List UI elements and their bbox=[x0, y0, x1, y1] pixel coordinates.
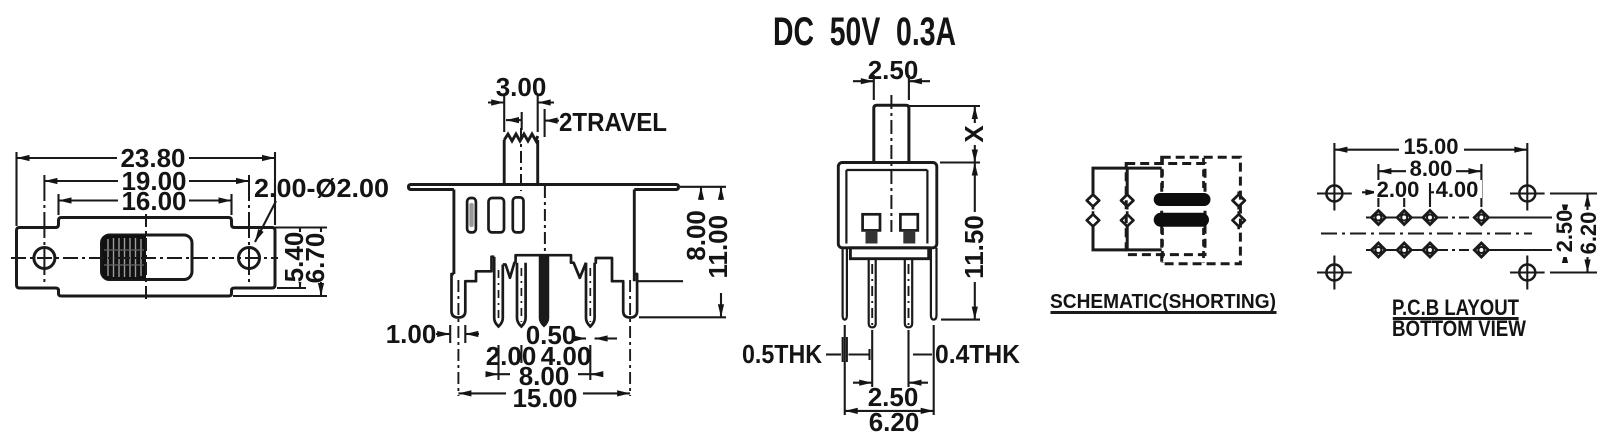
svg-text:0.4THK: 0.4THK bbox=[935, 339, 1020, 369]
dim 8.00 (bottom) bbox=[486, 373, 602, 375]
dim 23.80 bbox=[17, 152, 276, 226]
dim 15.00 (pcb) bbox=[1334, 143, 1527, 177]
shorting bar 1 (filled) bbox=[1154, 193, 1211, 206]
hole centerline right / 19.00 ext bbox=[248, 175, 250, 284]
pin centerline dashes bbox=[845, 264, 934, 415]
dim 2.50 (bottom) bbox=[853, 382, 928, 384]
side pin right bbox=[905, 259, 912, 328]
side pin left bbox=[869, 259, 876, 328]
dim 11.00 bbox=[720, 187, 722, 317]
pin 3 (filled) bbox=[540, 255, 549, 326]
side shaft centerline bbox=[890, 95, 892, 232]
svg-text:3.00: 3.00 bbox=[496, 72, 547, 102]
mounting plate bbox=[409, 185, 679, 190]
dim 6.20 bbox=[845, 410, 934, 412]
dim 3.00 bbox=[488, 96, 554, 132]
dim 11.50 bbox=[974, 163, 976, 320]
window 2 bbox=[489, 198, 505, 232]
dim 19.00 bbox=[44, 180, 249, 182]
top bus wire bbox=[1093, 168, 1162, 250]
dim 2.00 (pcb) bbox=[1362, 183, 1481, 207]
mounting hole right bbox=[239, 248, 260, 269]
2TRAVEL annotation bbox=[506, 109, 559, 137]
svg-text:15.00: 15.00 bbox=[512, 383, 577, 413]
dashed frame A (moving contact) bbox=[1126, 164, 1205, 255]
pin 4 bbox=[586, 263, 595, 327]
right extension lines bbox=[233, 228, 327, 297]
dim 8.00 (pcb) bbox=[1378, 164, 1481, 207]
dashed frame B (moving contact) bbox=[1162, 157, 1241, 263]
terminal hatched bases bbox=[866, 230, 878, 243]
svg-text:6.70: 6.70 bbox=[300, 233, 330, 284]
pin hole row lines bbox=[1321, 218, 1573, 251]
slide slot bbox=[102, 235, 193, 280]
pin hole centers bbox=[1375, 215, 1484, 254]
dim 5.40 (vertical) bbox=[299, 228, 301, 289]
svg-text:2TRAVEL: 2TRAVEL bbox=[559, 107, 667, 137]
dim 4.00 (pcb) bbox=[1434, 180, 1482, 198]
shaft top zigzag (broken view) bbox=[504, 134, 538, 141]
big hole TL bbox=[1326, 186, 1535, 281]
window 1 bbox=[467, 197, 523, 232]
bottom bus wire bbox=[1093, 226, 1162, 250]
pin holes row 2 bbox=[1371, 243, 1385, 257]
svg-text:BOTTOM VIEW: BOTTOM VIEW bbox=[1392, 316, 1526, 341]
window 3 bbox=[513, 197, 524, 232]
pin centerline dashes bbox=[499, 268, 591, 322]
pin 2 bbox=[517, 263, 526, 327]
svg-text:6.20: 6.20 bbox=[869, 407, 920, 437]
knob shaft bbox=[504, 134, 538, 185]
dim X bbox=[909, 106, 980, 163]
svg-text:2.50: 2.50 bbox=[1552, 210, 1577, 253]
svg-text:11.50: 11.50 bbox=[959, 215, 989, 279]
shaft centerline bbox=[520, 128, 522, 191]
svg-text:1.00: 1.00 bbox=[386, 319, 437, 349]
top view body outline bbox=[17, 218, 276, 297]
wire drop C2 top bbox=[1126, 168, 1129, 194]
mounting hole left bbox=[34, 248, 55, 269]
dim 15.00 bbox=[458, 392, 630, 394]
body centerline bbox=[544, 186, 546, 256]
pin holes row 1 bbox=[1371, 211, 1488, 258]
pcb centerline bbox=[1321, 233, 1532, 235]
svg-text:11.00: 11.00 bbox=[703, 215, 733, 279]
leg centerline left / 15.00 ext bbox=[457, 280, 459, 396]
side leg left (0.5THK) bbox=[843, 248, 847, 320]
shorting bar 2 (filled) bbox=[1154, 213, 1209, 227]
dim 6.70 (vertical) bbox=[320, 228, 322, 297]
dim 16.00 bbox=[59, 194, 232, 215]
side body outer bbox=[838, 163, 937, 248]
wire rise C2 bottom bbox=[1126, 226, 1129, 250]
dashed connectors to bars bbox=[1163, 158, 1204, 263]
big hole crosshairs bbox=[1317, 177, 1545, 290]
side leg right (0.4THK) bbox=[931, 248, 937, 320]
dim 8.00 (front right) bbox=[700, 187, 702, 281]
svg-text:2.00-Ø2.00: 2.00-Ø2.00 bbox=[254, 173, 389, 203]
dim 2.00 / 4.00 (pins) bbox=[499, 354, 591, 356]
terminal diamonds row1 bbox=[1087, 192, 1245, 230]
base plate bbox=[850, 248, 928, 259]
hole centerline left / 19.00 ext bbox=[43, 175, 45, 284]
svg-text:SCHEMATIC(SHORTING): SCHEMATIC(SHORTING) bbox=[1050, 291, 1276, 313]
svg-text:2.00: 2.00 bbox=[1377, 177, 1420, 202]
svg-text:0.5THK: 0.5THK bbox=[742, 339, 822, 369]
side shaft bbox=[874, 105, 909, 162]
side terminals bbox=[863, 214, 918, 230]
svg-text:16.00: 16.00 bbox=[121, 186, 186, 216]
svg-text:DC 50V 0.3A: DC 50V 0.3A bbox=[773, 10, 956, 54]
vertical centerline of knob bbox=[145, 214, 147, 302]
dim 6.20 (pcb right) bbox=[1550, 194, 1597, 273]
svg-text:X: X bbox=[959, 125, 989, 143]
pin 1 bbox=[494, 257, 594, 327]
knob (hatched) bbox=[102, 235, 147, 280]
side body inner lines bbox=[846, 169, 927, 171]
svg-text:4.00: 4.00 bbox=[1436, 177, 1479, 202]
horizontal centerline bbox=[11, 175, 278, 302]
leg centerline right / 15.00 ext bbox=[629, 280, 631, 396]
right extension lines front view bbox=[636, 187, 726, 317]
svg-text:6.20: 6.20 bbox=[1576, 212, 1601, 255]
body bottom profile with tabs and notches bbox=[452, 255, 638, 317]
dim 2.50 (pcb right) bbox=[1564, 208, 1566, 260]
body sides bbox=[454, 190, 634, 282]
